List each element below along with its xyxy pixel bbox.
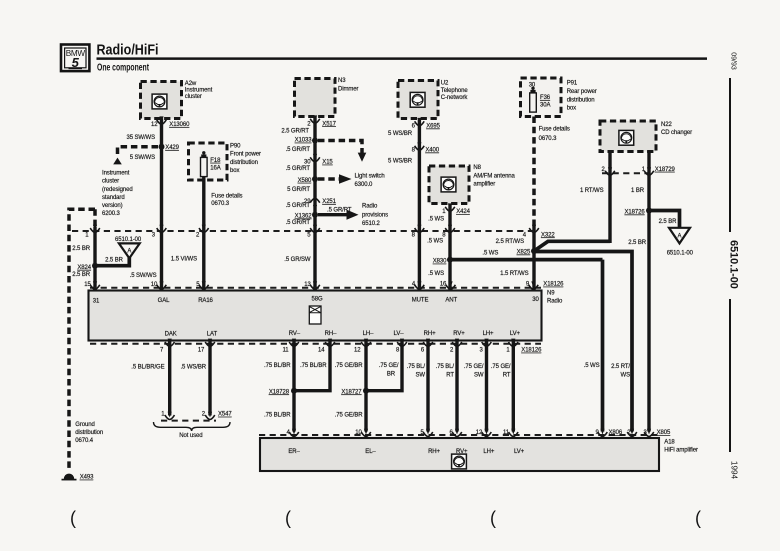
svg-text:A2w: A2w — [185, 81, 197, 87]
note fuse details 0670.3 (P91) — [539, 127, 570, 143]
svg-text:31: 31 — [93, 299, 100, 305]
svg-text:Dimmer: Dimmer — [338, 86, 358, 92]
svg-text:11: 11 — [503, 430, 510, 436]
junction X18728 — [269, 388, 297, 396]
pin 1 connector X424 — [442, 203, 470, 215]
wire branch 5 SW/WS to instrument cluster — [113, 147, 158, 165]
radio top pin 10 — [151, 281, 167, 289]
svg-text:.5 BL/BR/GE: .5 BL/BR/GE — [131, 365, 164, 371]
svg-text:2.5 BR: 2.5 BR — [105, 258, 124, 264]
junction X18727 — [341, 388, 369, 396]
svg-text:RV+: RV+ — [453, 331, 465, 337]
svg-text:X18727: X18727 — [341, 389, 362, 395]
svg-text:EL–: EL– — [365, 449, 376, 455]
svg-text:N9: N9 — [547, 290, 555, 296]
svg-text:X493: X493 — [80, 475, 94, 481]
svg-text:.75 BL/: .75 BL/ — [436, 364, 455, 370]
svg-text:distribution: distribution — [567, 97, 595, 103]
wire branch to light switch (dashed with down arrow) — [318, 141, 366, 162]
boundary pin 8 (U2) — [412, 225, 425, 239]
wire X18726 to ground — [649, 211, 680, 234]
svg-text:Front power: Front power — [230, 152, 261, 158]
svg-text:X1033: X1033 — [295, 138, 313, 144]
boundary pin 3 — [152, 225, 167, 239]
radio bottom pin 6 — [421, 339, 433, 354]
wire label .75 GE/SW — [464, 364, 484, 378]
svg-text:box: box — [230, 168, 239, 174]
svg-text:X424: X424 — [456, 209, 470, 215]
pin 30 connector X15 — [304, 154, 333, 166]
svg-text:12: 12 — [354, 348, 361, 354]
svg-text:5 WS/BR: 5 WS/BR — [388, 131, 413, 137]
svg-text:12: 12 — [151, 122, 158, 128]
svg-text:Radio: Radio — [362, 203, 378, 209]
wire 1 RT/WS staircase to X825 — [534, 241, 610, 251]
wire DAK pin 7 to X547 pin 1 — [168, 341, 171, 416]
wire dashed stub to boundary pin 1 — [93, 209, 97, 227]
CD changer N22 — [600, 121, 692, 152]
svg-text:WS: WS — [621, 373, 631, 379]
svg-text:(redesigned: (redesigned — [102, 187, 133, 193]
svg-text:0670.3: 0670.3 — [211, 201, 230, 207]
svg-text:X429: X429 — [165, 145, 179, 151]
svg-text:X830: X830 — [433, 259, 447, 265]
wire RH+ pin 6 to amp pin 5 — [426, 341, 429, 432]
wire branch arrow to light switch — [318, 174, 352, 184]
svg-text:5 GR/RT: 5 GR/RT — [287, 187, 310, 193]
svg-text:.75 GE/: .75 GE/ — [379, 363, 399, 369]
svg-text:X825: X825 — [517, 250, 531, 256]
svg-text:Light switch: Light switch — [355, 173, 385, 179]
svg-text:2.5 GR/RT: 2.5 GR/RT — [281, 129, 309, 135]
svg-text:.5 GR/SW: .5 GR/SW — [284, 257, 311, 263]
svg-text:09/93: 09/93 — [730, 52, 737, 70]
svg-text:X18726: X18726 — [625, 210, 646, 216]
radio bottom pin 7 — [160, 339, 174, 354]
svg-text:N8: N8 — [473, 165, 481, 171]
radio top pin 5 — [196, 281, 208, 289]
margin line lower — [729, 299, 731, 452]
svg-text:X580: X580 — [298, 178, 312, 184]
svg-text:X400: X400 — [425, 148, 439, 154]
svg-text:GAL: GAL — [158, 298, 170, 304]
svg-text:cluster: cluster — [185, 94, 202, 100]
svg-text:1 BR: 1 BR — [631, 188, 645, 194]
svg-text:A: A — [678, 234, 682, 240]
svg-text:Instrument: Instrument — [185, 87, 213, 93]
radio bottom pin 1 connector X18126 — [506, 339, 542, 354]
note instrument cluster 6200.3 — [102, 171, 133, 218]
front power distribution box P90 — [189, 143, 262, 180]
svg-text:N3: N3 — [338, 78, 346, 84]
svg-text:5 SW/WS: 5 SW/WS — [130, 155, 155, 161]
pin 12 connector X13060 — [151, 116, 190, 128]
svg-text:version): version) — [102, 203, 123, 209]
svg-text:58G: 58G — [311, 296, 322, 302]
svg-text:X251: X251 — [322, 199, 336, 205]
radio top pin 15 — [84, 281, 100, 289]
svg-text:X18728: X18728 — [269, 389, 290, 395]
svg-text:.5 GR/RT: .5 GR/RT — [286, 147, 311, 153]
svg-text:A: A — [127, 249, 131, 255]
radio lower boundary (dashed) — [90, 343, 541, 345]
boundary pin 8 (N8) — [442, 225, 455, 239]
lamp 58G icon — [309, 306, 321, 324]
svg-text:LV–: LV– — [394, 331, 405, 337]
amp pin 11 — [503, 429, 518, 437]
svg-text:ANT: ANT — [445, 298, 457, 304]
svg-text:LV+: LV+ — [510, 331, 521, 337]
svg-text:RH+: RH+ — [428, 449, 440, 455]
wire label .75 BL/SW — [407, 364, 426, 378]
svg-text:standard: standard — [102, 195, 125, 201]
svg-text:P90: P90 — [230, 144, 241, 150]
wire P90 fuse to radio pin 5 — [202, 177, 205, 291]
pin 1 connector X18729 — [642, 167, 676, 175]
svg-text:RV–: RV– — [289, 331, 301, 337]
svg-text:Fuse details: Fuse details — [539, 127, 570, 133]
wire N8 pin 1 to radio pin 16 — [448, 204, 451, 291]
svg-text:box: box — [567, 106, 576, 112]
svg-text:Rear power: Rear power — [567, 89, 597, 95]
svg-text:2.5 BR: 2.5 BR — [72, 246, 91, 252]
header rule — [97, 57, 708, 60]
svg-text:LH+: LH+ — [483, 331, 494, 337]
svg-text:X1362: X1362 — [295, 214, 313, 220]
svg-text:SW: SW — [474, 373, 484, 379]
svg-text:1994: 1994 — [730, 461, 739, 480]
svg-text:X824: X824 — [77, 265, 91, 271]
terminal X493 — [62, 474, 95, 481]
svg-text:X18126: X18126 — [521, 348, 542, 354]
junction X429 — [159, 144, 180, 151]
svg-text:.75 GE/BR: .75 GE/BR — [335, 413, 364, 419]
BMW 5 logo — [61, 45, 89, 72]
dimmer N3 — [295, 78, 359, 116]
ground distribution dashed wire — [69, 209, 95, 470]
radio connector boundary (dashed) — [90, 287, 541, 289]
svg-text:P91: P91 — [567, 81, 578, 87]
wire LH+ pin 3 to amp pin 12 — [485, 341, 488, 432]
wire label 2.5 RT/WS (two lines) — [611, 364, 630, 378]
svg-text:10: 10 — [355, 430, 362, 436]
svg-text:Radio/HiFi: Radio/HiFi — [97, 43, 159, 59]
HiFi amplifier A18 box — [260, 438, 659, 471]
telephone C-network U2 — [398, 81, 468, 119]
svg-text:.5 GR/RT: .5 GR/RT — [286, 220, 311, 226]
svg-text:DAK: DAK — [165, 332, 177, 338]
wire ground triangle to X824 — [96, 257, 129, 266]
wire A2w pin 12 to radio pin 10 — [160, 119, 163, 291]
pin 2 connector — [602, 167, 615, 175]
radio N9 box — [89, 291, 542, 341]
wire label .75 GE/RT — [491, 364, 511, 378]
amplifier boundary (dashed) — [259, 434, 660, 436]
svg-text:distribution: distribution — [75, 430, 103, 436]
svg-text:A18: A18 — [664, 439, 675, 445]
note fuse details 0670.3 (P90) — [211, 194, 242, 207]
wire LV+ pin 1 to amp pin 11 — [512, 341, 515, 432]
svg-text:X806: X806 — [609, 430, 623, 436]
svg-text:X13060: X13060 — [169, 122, 190, 128]
svg-text:2.5 BR: 2.5 BR — [628, 240, 647, 246]
radio bottom pin 3 — [480, 339, 492, 354]
svg-text:LH+: LH+ — [483, 449, 494, 455]
radio top pin 4 — [412, 281, 424, 289]
boundary connector X322 pin 4 — [523, 225, 556, 239]
wire P91 terminal 30 (dashed) — [532, 117, 536, 227]
svg-text:X695: X695 — [426, 124, 440, 130]
wire 2.5 RT/WS staircase X825 to amp pin 2 — [534, 252, 632, 432]
radio bottom pin 11 — [282, 339, 298, 354]
radio top pin 16 — [440, 281, 456, 289]
svg-text:.5 WS: .5 WS — [427, 238, 443, 244]
pin 29 connector X251 — [304, 198, 337, 206]
radio bottom pin 17 — [198, 339, 215, 354]
svg-text:2.5 BR: 2.5 BR — [72, 272, 91, 278]
svg-text:RA16: RA16 — [198, 298, 213, 304]
svg-text:16: 16 — [440, 282, 447, 288]
svg-text:Not used: Not used — [179, 433, 202, 439]
svg-text:.5 GR/RT: .5 GR/RT — [327, 207, 352, 213]
svg-text:RT: RT — [446, 373, 454, 379]
wire N22 pin 2 stub — [608, 151, 611, 243]
svg-text:.5 WS: .5 WS — [428, 217, 444, 223]
svg-text:SW: SW — [416, 373, 426, 379]
svg-text:16A: 16A — [210, 165, 220, 171]
svg-text:F36: F36 — [540, 95, 551, 101]
svg-text:CD changer: CD changer — [661, 130, 692, 136]
svg-text:1 RT/WS: 1 RT/WS — [580, 188, 604, 194]
svg-text:6510.1-00: 6510.1-00 — [115, 237, 142, 243]
pin 2 connector X517 — [307, 115, 336, 127]
svg-text:6510.1-00: 6510.1-00 — [728, 240, 740, 289]
junction X1033 — [295, 138, 318, 144]
wire LAT pin 17 to X547 pin 2 — [208, 341, 211, 416]
note Light switch 6300.0 — [355, 173, 385, 188]
svg-text:HiFi amplifier: HiFi amplifier — [664, 447, 698, 453]
speaker icon in amplifier — [452, 454, 467, 469]
svg-text:.5 GR/RT: .5 GR/RT — [286, 203, 311, 209]
svg-text:5 WS/BR: 5 WS/BR — [388, 158, 413, 164]
svg-text:1.5 RT/WS: 1.5 RT/WS — [500, 271, 528, 277]
connector X547 not used — [154, 412, 233, 440]
junction X830 — [433, 257, 453, 265]
svg-text:15: 15 — [84, 282, 91, 288]
radio bottom pin 12 — [354, 339, 371, 354]
wire branch arrow to radio provisions — [318, 207, 359, 219]
svg-text:F18: F18 — [210, 158, 221, 164]
wire RV- pin 11 to amp pin 4 — [292, 341, 295, 432]
wire pin 1 to radio pin 15 — [93, 227, 96, 290]
svg-text:13: 13 — [304, 282, 311, 288]
svg-text:LH–: LH– — [363, 331, 374, 337]
svg-text:11: 11 — [282, 348, 289, 354]
amp pin 3 connector X805 — [643, 429, 671, 437]
label N9 Radio — [547, 290, 563, 304]
radio top pin 9 connector X18126 — [526, 281, 564, 289]
svg-text:2.5 BR: 2.5 BR — [659, 219, 678, 225]
svg-text:35 SW/WS: 35 SW/WS — [126, 135, 155, 141]
svg-text:10: 10 — [151, 282, 158, 288]
svg-text:.75 BL/BR: .75 BL/BR — [264, 413, 291, 419]
radio bottom pin 14 — [318, 339, 335, 354]
wire N3 pin 2 to radio pin 13 — [313, 117, 316, 291]
svg-text:RH+: RH+ — [424, 331, 436, 337]
junction X18726 — [625, 208, 652, 216]
amp pin 2 — [627, 429, 637, 437]
svg-text:.5 WS: .5 WS — [482, 250, 498, 256]
svg-text:.5 WS: .5 WS — [428, 271, 444, 277]
amp pin 10 — [355, 429, 371, 437]
svg-text:.75 GE/: .75 GE/ — [464, 364, 484, 370]
margin line upper — [729, 78, 731, 232]
svg-text:N22: N22 — [661, 122, 672, 128]
wire X322 to radio pin 9 — [532, 226, 535, 290]
wire RH- pin 14 to X18728 — [294, 341, 330, 391]
main harness boundary (dashed) — [72, 230, 536, 232]
svg-text:.75 BL/: .75 BL/ — [407, 364, 426, 370]
svg-text:30A: 30A — [540, 103, 550, 109]
svg-text:X805: X805 — [657, 430, 671, 436]
svg-text:MUTE: MUTE — [412, 298, 429, 304]
wire LV- pin 8 to X18727 — [366, 341, 402, 391]
svg-text:provisions: provisions — [362, 212, 388, 218]
svg-text:LV+: LV+ — [514, 449, 525, 455]
svg-text:Radio: Radio — [547, 298, 563, 304]
note ground distribution 0670.4 — [75, 422, 103, 444]
AM/FM antenna amplifier N8 — [429, 165, 516, 203]
svg-text:distribution: distribution — [230, 160, 258, 166]
wire RV+ pin 2 to amp pin 6 — [455, 341, 458, 432]
junction X825 — [517, 248, 537, 256]
wire label .75 GE/BR (two lines) — [379, 363, 399, 377]
svg-text:ER–: ER– — [288, 449, 300, 455]
boundary pin 5 — [307, 225, 320, 239]
svg-text:X18729: X18729 — [655, 167, 676, 173]
amp pin 6 — [449, 429, 461, 437]
svg-text:(: ( — [490, 508, 496, 528]
svg-text:6510.1-00: 6510.1-00 — [667, 251, 694, 257]
svg-text:.5 WS: .5 WS — [584, 363, 600, 369]
svg-text:U2: U2 — [441, 81, 449, 87]
svg-text:30: 30 — [532, 297, 539, 303]
svg-text:.75 GE/BR: .75 GE/BR — [335, 363, 364, 369]
svg-text:.75 BL/BR: .75 BL/BR — [300, 363, 327, 369]
wire U2 pin 6 to radio pin 4 — [418, 118, 421, 290]
wire N22 pin 1 to amp pin 3 — [647, 151, 650, 432]
wire LH- pin 12 to amp pin 10 — [364, 341, 367, 432]
svg-text:2.5 RT/WS: 2.5 RT/WS — [496, 239, 524, 245]
ground triangle right 6510.1-00 — [667, 228, 694, 257]
svg-text:X18126: X18126 — [543, 282, 564, 288]
svg-text:C-network: C-network — [441, 95, 469, 101]
svg-text:0670.4: 0670.4 — [75, 438, 94, 444]
radio top pin 13 — [304, 281, 320, 289]
svg-text:.5 WS/BR: .5 WS/BR — [180, 365, 206, 371]
svg-text:6510.2: 6510.2 — [362, 221, 381, 227]
radio bottom pin 8 — [396, 339, 407, 354]
ground triangle left 6510.1-00 — [115, 237, 142, 258]
instrument cluster A2w — [141, 81, 213, 119]
svg-text:6300.0: 6300.0 — [355, 182, 374, 188]
svg-text:amplifier: amplifier — [473, 182, 495, 188]
svg-text:2.5 RT/: 2.5 RT/ — [611, 364, 630, 370]
svg-text:0670.3: 0670.3 — [539, 136, 558, 142]
svg-text:(: ( — [695, 508, 701, 528]
svg-text:LAT: LAT — [207, 332, 218, 338]
svg-text:X547: X547 — [218, 412, 232, 418]
label A18 HiFi amplifier — [664, 439, 698, 453]
svg-text:X322: X322 — [541, 232, 555, 238]
svg-text:AM/FM antenna: AM/FM antenna — [473, 174, 515, 180]
svg-text:One component: One component — [97, 63, 149, 74]
radio bottom pin 2 — [450, 339, 462, 354]
svg-text:(: ( — [285, 508, 291, 528]
svg-text:30: 30 — [304, 160, 311, 166]
svg-text:.5 SW/WS: .5 SW/WS — [130, 273, 157, 279]
svg-text:6200.3: 6200.3 — [102, 211, 121, 217]
svg-text:cluster: cluster — [102, 179, 119, 185]
svg-text:.5 GR/RT: .5 GR/RT — [286, 166, 311, 172]
svg-text:Fuse details: Fuse details — [211, 194, 242, 200]
note Radio provisions 6510.2 — [362, 203, 388, 227]
svg-text:BR: BR — [387, 371, 396, 377]
connector X18729 boundary dashed — [602, 172, 650, 174]
svg-text:Telephone: Telephone — [441, 88, 469, 94]
svg-text:1.5 VI/WS: 1.5 VI/WS — [171, 257, 197, 263]
svg-text:X15: X15 — [322, 160, 333, 166]
junction X580 — [298, 176, 318, 184]
amp pin 5 — [420, 429, 432, 437]
svg-text:14: 14 — [318, 348, 325, 354]
wire X830 mute branch .5 WS — [450, 250, 603, 259]
svg-text:Ground: Ground — [75, 422, 94, 428]
svg-text:RH–: RH– — [325, 331, 337, 337]
svg-text:X517: X517 — [322, 121, 336, 127]
svg-text:Instrument: Instrument — [102, 171, 130, 177]
amp pin 4 — [286, 429, 298, 437]
pin 6 connector X695 — [412, 118, 441, 130]
connector X400 pin 8 — [412, 142, 440, 153]
amp pin 12 — [476, 429, 492, 437]
junction X824 — [77, 263, 98, 271]
svg-text:.75 GE/: .75 GE/ — [491, 364, 511, 370]
amp pin 9 connector X806 — [595, 429, 622, 437]
wire label .75 BL/RT — [436, 364, 455, 378]
svg-text:12: 12 — [476, 430, 483, 436]
wire .5 WS mute to amp pin 9 — [601, 260, 605, 432]
svg-text:.75 BL/BR: .75 BL/BR — [264, 363, 291, 369]
boundary pin 1 — [85, 225, 100, 239]
rear power distribution box P91 — [521, 78, 597, 117]
svg-text:17: 17 — [198, 348, 205, 354]
boundary pin 2 — [196, 225, 209, 239]
junction X1362 — [295, 212, 318, 220]
svg-text:(: ( — [70, 508, 76, 528]
svg-text:RT: RT — [503, 373, 511, 379]
